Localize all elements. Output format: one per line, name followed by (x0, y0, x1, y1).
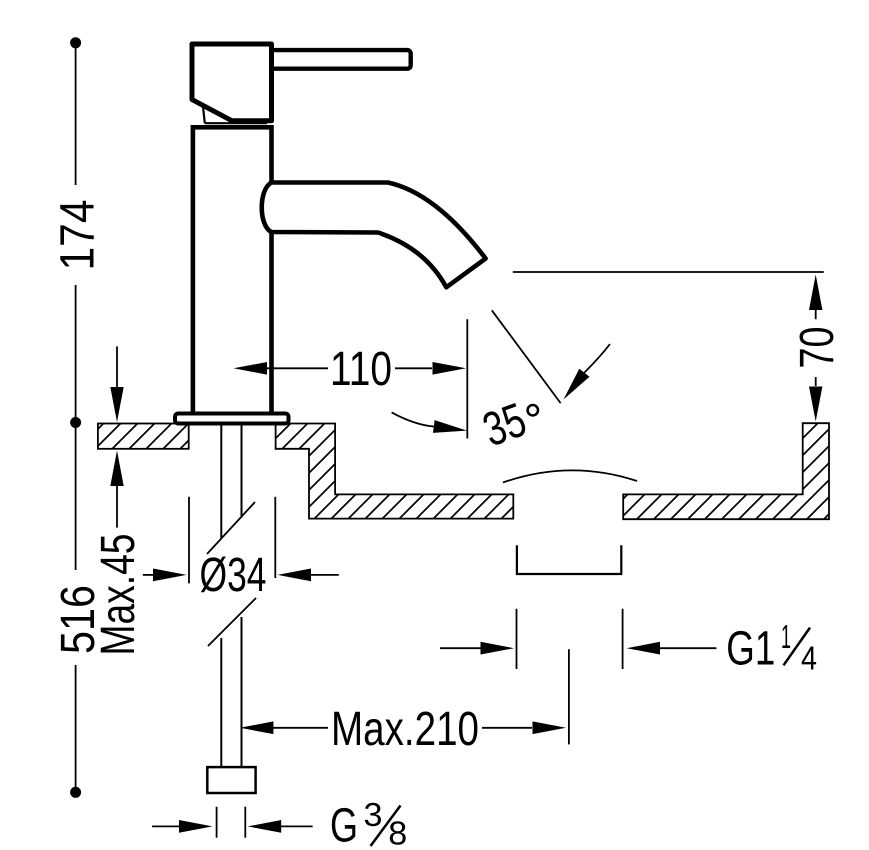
cartridge collar under head (203, 107, 267, 124)
pipe end nut (207, 767, 255, 793)
G1 1/4 tick marks (517, 609, 623, 669)
svg-text:70: 70 (791, 327, 844, 369)
G 3/8 arrows (152, 825, 181, 827)
Max.210 dimension (240, 721, 274, 734)
svg-text:G: G (330, 799, 358, 850)
svg-text:Max.210: Max.210 (331, 703, 479, 756)
faucet lever handle (269, 50, 411, 69)
drain flange U outline (517, 545, 621, 574)
35 degree inclined line (492, 310, 561, 403)
faucet head block (192, 44, 272, 121)
G 3/8 tick marks (217, 807, 246, 838)
70 dimension line (809, 275, 822, 311)
diameter 34 arrows (143, 574, 155, 576)
supply pipe shank lower segments (221, 617, 241, 767)
svg-text:110: 110 (330, 343, 392, 396)
supply pipe shank upper segments (221, 424, 241, 538)
35 degree vertical reference line (466, 319, 468, 438)
110 dimension line (110, 367, 234, 369)
base plate (175, 414, 289, 424)
faucet body column (193, 127, 272, 416)
countertop deck left section (hatched) (98, 424, 189, 449)
countertop deck right + basin left wall (hatched Z section) (276, 424, 514, 519)
spout (262, 183, 486, 288)
arc arrow lower left (392, 412, 434, 426)
svg-text:G1: G1 (726, 623, 775, 676)
main vertical dimension line with dots (75, 43, 77, 793)
svg-text:4: 4 (801, 639, 817, 676)
arc arrow upper right (584, 344, 610, 373)
svg-text:3: 3 (364, 796, 383, 833)
G1 1/4 arrows (440, 647, 482, 649)
drain centerline tick (568, 649, 570, 744)
pipe break diagonal lower (208, 598, 256, 646)
svg-text:174: 174 (52, 200, 105, 271)
Max.45 dimension arrows (116, 346, 118, 388)
basin bottom arc over drain (503, 470, 637, 482)
water stream reference line (513, 271, 824, 273)
pipe break diagonal upper (207, 502, 255, 554)
svg-text:Max.45: Max.45 (92, 534, 145, 656)
diameter 34 extension lines (189, 497, 275, 584)
basin bottom right + right wall (hatched L section) (623, 423, 829, 519)
svg-text:8: 8 (388, 815, 407, 850)
svg-text:1: 1 (781, 618, 791, 655)
svg-text:Ø34: Ø34 (200, 549, 267, 602)
